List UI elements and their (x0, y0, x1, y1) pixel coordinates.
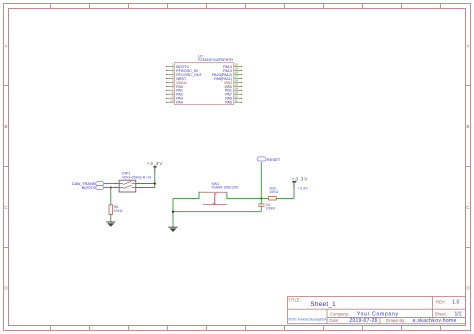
dip pin dots (115, 183, 140, 188)
wire R20 to 3v3 (276, 197, 294, 199)
svg-text:+3.3V: +3.3V (147, 161, 163, 166)
label TITLE: (288, 298, 301, 303)
svg-text:C: C (4, 205, 7, 210)
svg-text:REV:: REV: (436, 299, 446, 304)
svg-text:Sheet_1: Sheet_1 (310, 301, 336, 308)
junction reset node (260, 197, 262, 199)
title block row line 1 (288, 308, 466, 310)
netflag CAN_TRANS port (96, 182, 104, 186)
ic pin 6 PA0 (166, 83, 183, 89)
netflag BOOT0 text (82, 185, 96, 190)
rev value 1.0 (452, 299, 459, 305)
dip refdes DIP1 (122, 172, 130, 176)
wire bottom rail (173, 211, 261, 213)
ic pin 10 PA4 (166, 99, 183, 105)
wire RESET down (260, 162, 262, 199)
label Drawn By: (386, 318, 405, 323)
ic pin 15 VSS (225, 83, 243, 89)
junction bottom left (172, 211, 174, 213)
ic pin 18 PA10(PA12) (212, 71, 242, 77)
resistor R20 body (268, 197, 276, 200)
svg-text:1.0: 1.0 (452, 299, 459, 305)
svg-text:TITLE:: TITLE: (288, 298, 301, 303)
sheet value 1/1 (455, 312, 462, 318)
pushbutton SW1 actuator (213, 193, 217, 204)
ic pin 3 PF1/OSC_OUT (166, 71, 203, 77)
title block col line drawn-by (379, 318, 381, 324)
ic pin 5 VDDA (166, 79, 187, 85)
svg-text:D: D (4, 286, 7, 291)
date value 2019-07-26 (349, 318, 377, 324)
wire R6 to gnd (110, 214, 112, 222)
svg-text:10KΩ: 10KΩ (270, 190, 279, 194)
net name +3.3V on wire (297, 186, 308, 191)
ic pin 16 VDD (224, 79, 242, 85)
ic pin 14 PB1 (225, 87, 242, 93)
ic pin 2 PF0/OSC_IN (166, 67, 198, 73)
ic pin 19 PA13 (223, 67, 242, 73)
wire 3v3 riser right (293, 187, 295, 199)
label Date: (329, 318, 339, 323)
svg-text:TSA06-1050-250: TSA06-1050-250 (211, 186, 238, 190)
dip pole 1 (119, 181, 136, 184)
label C6 value 100nF (266, 207, 276, 211)
label R6 (114, 205, 118, 209)
capacitor C6 plates (258, 204, 265, 206)
junction 3v3 left (154, 182, 156, 184)
svg-text:A: A (467, 44, 470, 49)
dip switch DIP1 body (119, 180, 136, 192)
svg-text:C: C (466, 205, 469, 210)
svg-text:+3.3V: +3.3V (297, 186, 308, 191)
wire DIP1 out1 (136, 183, 155, 185)
ic pin 13 PA7 (225, 91, 242, 97)
svg-text:B: B (467, 124, 470, 129)
ic U? body (174, 63, 233, 105)
title block outline (288, 297, 466, 324)
svg-text:1/1: 1/1 (455, 312, 462, 318)
netflag RESET (257, 157, 281, 162)
ic pin 8 PA2 (166, 91, 183, 97)
wire left drop (172, 198, 174, 227)
svg-text:Sheet:: Sheet: (435, 311, 447, 316)
resistor R6 body (109, 205, 113, 215)
label Sheet: (435, 311, 447, 316)
dip value VDG-05HQ-R ref (122, 175, 152, 179)
netflag BOOT0 port (96, 186, 104, 190)
svg-text:10: 10 (170, 99, 174, 103)
sw refdes SW1 (211, 182, 219, 186)
dip pole 2 (119, 185, 136, 188)
svg-text:PA4: PA4 (176, 101, 183, 105)
pushbutton SW1 contacts (201, 192, 227, 204)
ground GND2 (168, 227, 177, 232)
wire reset to R20 (261, 197, 268, 199)
svg-text:+3.3V: +3.3V (292, 176, 308, 181)
label R6 value 10KΩ (114, 209, 123, 213)
sheet name Sheet_1 (310, 301, 336, 308)
ic pin 4 NRST (166, 75, 187, 81)
frame row letters A-D (4, 44, 469, 291)
wire reset to C6 (260, 198, 262, 203)
easyeda note link (288, 317, 327, 321)
ic pin 9 PA3 (166, 95, 183, 101)
company value Your Company (357, 312, 399, 318)
title block row line 2 (327, 317, 466, 319)
svg-text:VDG-05HQ-R ref: VDG-05HQ-R ref (122, 175, 152, 179)
ic pin 1 BOOT0 (166, 63, 189, 69)
sw value TSA06-1050-250 (211, 186, 238, 190)
svg-text:NOTE: Powered By EasyEDA: NOTE: Powered By EasyEDA (288, 317, 327, 321)
svg-text:a.skachkov.home: a.skachkov.home (412, 318, 456, 324)
ic pin 12 PA6 (225, 95, 242, 101)
power flag +3.3V right (292, 176, 308, 187)
svg-text:Date:: Date: (329, 318, 339, 323)
wire C6 to bottom (260, 207, 262, 212)
wire BOOT0 to DIP1 (104, 187, 119, 189)
label REV: (436, 299, 446, 304)
junction R6 tap (110, 186, 112, 188)
svg-text:Drawn By:: Drawn By: (386, 318, 405, 323)
svg-text:100nF: 100nF (266, 207, 276, 211)
title block col line rev/sheet (432, 297, 434, 318)
svg-text:2019-07-26: 2019-07-26 (349, 318, 377, 324)
ic pin 11 PA5 (225, 99, 242, 105)
svg-text:B: B (5, 124, 8, 129)
drawn-by value a.skachkov.home (412, 318, 456, 324)
wire BOOT0 to R6 (110, 188, 112, 205)
ic pin 20 PA14 (223, 63, 242, 69)
svg-text:D: D (466, 286, 469, 291)
svg-text:BOOT0: BOOT0 (82, 185, 96, 190)
ic part name (198, 57, 233, 62)
wire sw left (173, 192, 201, 198)
svg-text:RESET: RESET (267, 157, 281, 162)
power flag +3.3V left (147, 161, 163, 172)
svg-text:Company:: Company: (330, 311, 349, 316)
svg-text:10KΩ: 10KΩ (114, 209, 123, 213)
label C6 (266, 203, 270, 207)
ground GND1 (106, 222, 115, 227)
wire CAN_TRANS to DIP1 (104, 183, 119, 185)
ic pin 7 PA1 (166, 87, 183, 93)
wire sw right (227, 192, 261, 198)
svg-text:11: 11 (235, 99, 238, 103)
title block col line left cell (326, 309, 328, 324)
svg-text:STM32F042F6P6TR: STM32F042F6P6TR (198, 57, 233, 62)
label R20 value 10KΩ (270, 190, 279, 194)
label Company: (330, 311, 349, 316)
svg-text:A: A (5, 44, 8, 49)
ic refdes U? (198, 53, 204, 58)
label R20 (270, 187, 276, 191)
netflag CAN_TRANS text (72, 181, 96, 186)
svg-text:PA5: PA5 (225, 101, 232, 105)
wire 3v3 riser left (154, 172, 156, 188)
svg-text:Your Company: Your Company (357, 312, 399, 318)
ic pin 17 PA9(PA11) (214, 75, 242, 81)
wire DIP1 out2 (136, 187, 155, 189)
